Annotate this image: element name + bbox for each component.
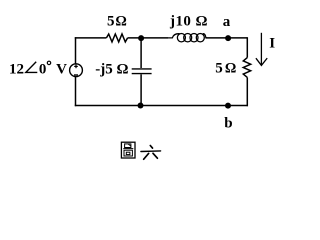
- svg-text:5: 5: [107, 14, 115, 30]
- svg-text:-j5 Ω: -j5 Ω: [95, 62, 128, 78]
- voltage source plus sign: [74, 65, 78, 69]
- node b junction dot: [225, 103, 231, 109]
- inductor j10 ohm: [168, 34, 207, 42]
- wire right vertical bottom: [246, 77, 248, 106]
- svg-text:V: V: [56, 62, 67, 78]
- svg-text:12: 12: [9, 62, 24, 78]
- svg-text:Ω: Ω: [115, 14, 126, 30]
- resistor 5 ohm right (vertical): [243, 58, 250, 78]
- resistor 5 ohm top: [106, 34, 127, 42]
- svg-text:a: a: [223, 14, 231, 30]
- svg-text:0: 0: [39, 62, 47, 78]
- wire left vertical top (source top lead): [75, 37, 77, 64]
- current arrow I: [256, 33, 267, 66]
- wire capacitor top lead: [140, 38, 142, 68]
- wire resistor to capacitor junction: [128, 37, 168, 39]
- svg-text:Ω: Ω: [225, 61, 236, 77]
- degree mark: [47, 61, 50, 64]
- capacitor -j5 ohm plates: [132, 68, 152, 70]
- wire inductor to node a and corner: [206, 37, 247, 39]
- caption glyph LIU (six): [141, 146, 161, 160]
- node a junction dot: [225, 35, 231, 41]
- svg-text:j10 Ω: j10 Ω: [169, 13, 208, 29]
- angle symbol: [26, 62, 38, 73]
- svg-text:b: b: [224, 115, 232, 131]
- wire left vertical bottom (source bottom lead): [75, 77, 77, 107]
- wire bottom horizontal: [75, 105, 248, 107]
- voltage source minus sign: [74, 74, 78, 76]
- svg-text:5: 5: [215, 61, 223, 77]
- wire capacitor bottom lead: [140, 74, 142, 105]
- caption glyph TU (figure): [121, 142, 135, 158]
- junction dot capacitor bottom: [138, 103, 144, 109]
- voltage source VS 12 angle 0 V: [70, 64, 83, 77]
- wire top-left horizontal: [75, 37, 107, 39]
- wire right vertical top: [246, 37, 248, 57]
- svg-text:I: I: [269, 36, 275, 52]
- junction dot capacitor top: [138, 35, 144, 41]
